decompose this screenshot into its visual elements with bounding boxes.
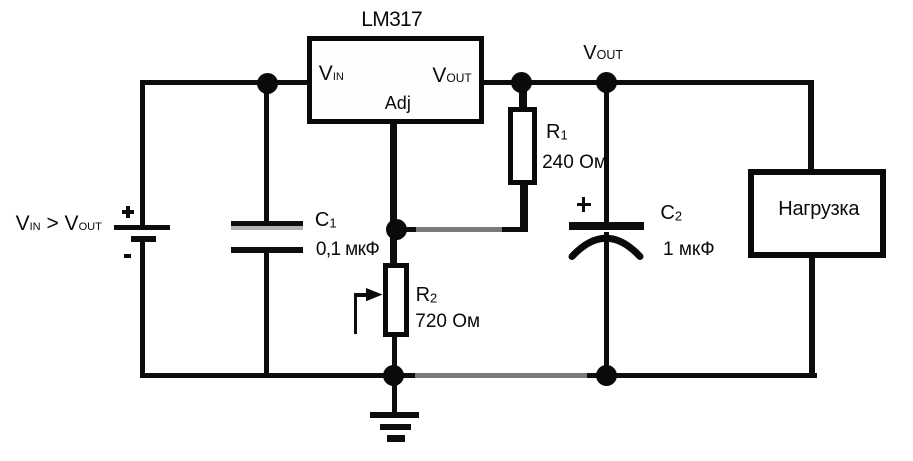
- wire: bottom rail gray middle segment: [415, 373, 587, 378]
- wire: C1 vertical from top rail to C1 top plate: [264, 82, 270, 224]
- node: junction dot at Adj: [386, 219, 407, 240]
- wire: C2 vertical from C2 down to bottom rail: [604, 232, 610, 378]
- label Vin > Vout at far left: [16, 213, 102, 234]
- ground stem: [392, 378, 398, 412]
- wire: R1 bottom stub down to horizontal wire: [520, 182, 528, 232]
- ground bar 3: [387, 435, 405, 442]
- battery top (+) plate: [114, 225, 170, 231]
- wire: left vertical, battery - plate down to bottom rail: [140, 242, 146, 378]
- wire: Adj node to R1 bottom, horizontal black left part: [394, 227, 416, 232]
- wire: right vertical from top rail down to load box: [808, 80, 814, 175]
- node: junction dot at Vout / C2 top: [596, 72, 617, 93]
- label C2: [660, 203, 682, 223]
- battery minus sign: [124, 254, 131, 259]
- resistor R1 box: [508, 107, 537, 185]
- wire: Adj node to R1 bottom, horizontal black right part: [502, 227, 525, 232]
- capacitor C1 top plate: [231, 221, 303, 227]
- wire: bottom rail: [140, 373, 818, 379]
- value label 240 Ом: [542, 153, 607, 172]
- wire: Adj pin vertical down through node to R2 top: [390, 121, 397, 267]
- capacitor C2 plus sign: [577, 203, 591, 206]
- value label 0,1 мкФ: [316, 240, 379, 259]
- node: junction dot at R1 / top rail: [511, 72, 532, 93]
- load box (Нагрузка): [748, 169, 887, 258]
- capacitor C1 bottom plate: [231, 247, 303, 253]
- pin label Vout: [432, 65, 471, 86]
- op-amp/regulator U1 LM317 box: [307, 36, 484, 124]
- label R2: [416, 285, 438, 305]
- capacitor C1 top plate gray smear: [231, 226, 303, 230]
- value label 720 Ом: [415, 312, 480, 331]
- rheostat arrow head: [366, 288, 384, 302]
- wire: Adj node to R1 bottom, horizontal gray middle part: [416, 227, 502, 232]
- ground bar 2: [380, 424, 412, 430]
- label R1: [546, 122, 568, 142]
- battery plus sign: [122, 210, 134, 214]
- rheostat arrow vertical leg: [354, 293, 358, 334]
- pin label Vin: [319, 63, 344, 84]
- wire: C2 vertical from Vout node down to C2 top plate: [604, 82, 610, 227]
- ground bar 1: [370, 412, 419, 418]
- rheostat arrow horizontal leg: [354, 293, 370, 297]
- label C1: [315, 210, 337, 230]
- wire: R1 top stub from top rail: [519, 84, 527, 109]
- wire: right vertical from load box down to bottom rail: [809, 252, 815, 378]
- wire: left vertical, top rail down to battery + plate: [140, 80, 146, 225]
- value label 1 мкФ: [663, 240, 715, 259]
- resistor R2 box (rheostat): [383, 263, 410, 337]
- label Нагрузка: [778, 199, 859, 219]
- wire: top rail from left corner to right corner: [140, 80, 814, 86]
- wire: R2 bottom to bottom rail: [392, 333, 398, 376]
- pin label Adj: [385, 94, 411, 112]
- node: junction dot at C2 bottom / bottom rail: [596, 365, 617, 386]
- capacitor C2 top plate: [569, 222, 645, 230]
- battery bottom (-) plate: [131, 236, 156, 242]
- capacitor C2 curved bottom plate: [565, 230, 647, 264]
- node: junction dot at ground / bottom rail: [383, 365, 404, 386]
- label LM317: [361, 9, 422, 30]
- wire: C1 vertical from C1 bottom plate to bottom rail: [264, 250, 270, 378]
- node: junction dot at C1 / top rail: [257, 73, 278, 94]
- node Vout label above rail: [583, 43, 623, 63]
